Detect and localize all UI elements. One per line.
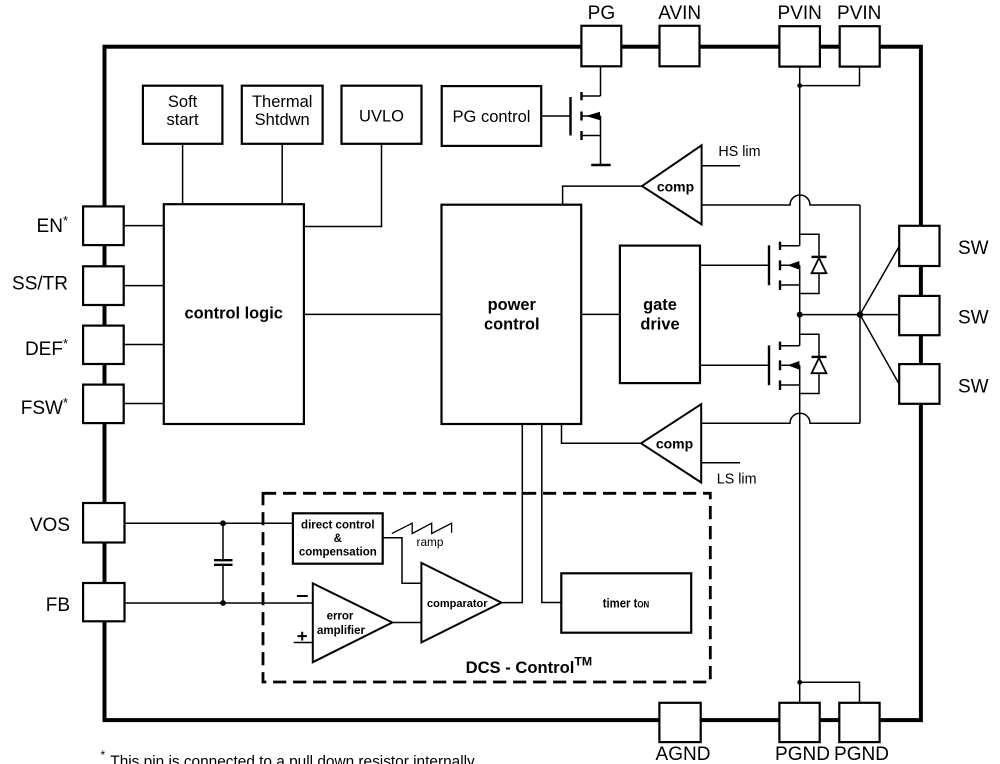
svg-text:power: power <box>488 296 537 314</box>
svg-text:Thermal: Thermal <box>252 93 313 111</box>
svg-text:Soft: Soft <box>168 93 198 111</box>
svg-text:LS lim: LS lim <box>717 472 757 488</box>
svg-text:error: error <box>327 610 354 622</box>
svg-text:AGND: AGND <box>656 744 711 764</box>
svg-text:SW: SW <box>958 238 989 259</box>
svg-text:ramp: ramp <box>417 535 444 549</box>
svg-text:comp: comp <box>657 178 694 194</box>
svg-text:Shtdwn: Shtdwn <box>255 111 310 129</box>
svg-text:AVIN: AVIN <box>658 3 701 24</box>
svg-text:PVIN: PVIN <box>837 3 881 24</box>
svg-text:PGND: PGND <box>775 744 830 764</box>
svg-text:This pin is connected to a pul: This pin is connected to a pull down res… <box>110 753 478 764</box>
svg-text:FSW*: FSW* <box>21 395 68 419</box>
svg-text:direct control: direct control <box>301 519 374 531</box>
svg-text:comp: comp <box>656 436 693 452</box>
svg-text:amplifier: amplifier <box>317 625 365 637</box>
svg-text:start: start <box>167 111 200 129</box>
svg-text:SS/TR: SS/TR <box>12 274 68 295</box>
svg-text:*: * <box>101 748 106 762</box>
svg-text:gate: gate <box>643 296 677 314</box>
svg-text:compensation: compensation <box>299 547 377 559</box>
svg-text:FB: FB <box>46 595 70 616</box>
svg-text:DEF*: DEF* <box>25 336 68 360</box>
svg-text:control: control <box>484 315 540 333</box>
svg-text:HS lim: HS lim <box>718 144 760 160</box>
svg-text:comparator: comparator <box>427 598 488 610</box>
svg-text:drive: drive <box>640 315 679 333</box>
svg-text:PG control: PG control <box>453 108 531 126</box>
svg-text:PG: PG <box>588 3 615 24</box>
svg-text:&: & <box>334 533 342 545</box>
svg-text:control logic: control logic <box>185 305 283 323</box>
svg-text:VOS: VOS <box>30 515 70 536</box>
svg-text:SW: SW <box>958 377 989 398</box>
svg-text:UVLO: UVLO <box>359 108 404 126</box>
svg-text:SW: SW <box>958 308 989 329</box>
svg-text:PGND: PGND <box>834 744 889 764</box>
svg-text:DCS - ControlTM: DCS - ControlTM <box>466 654 593 677</box>
svg-text:PVIN: PVIN <box>778 3 822 24</box>
